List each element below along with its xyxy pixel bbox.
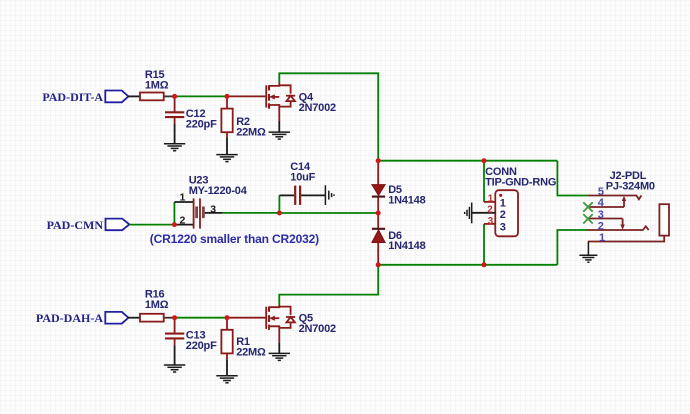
svg-text:220pF: 220pF bbox=[186, 119, 217, 131]
svg-text:3: 3 bbox=[500, 221, 506, 233]
ground (Q4) bbox=[269, 132, 290, 139]
node junction bbox=[376, 211, 381, 216]
svg-text:5: 5 bbox=[598, 186, 604, 198]
svg-text:1: 1 bbox=[599, 232, 605, 244]
ground (C13) bbox=[164, 365, 185, 372]
port PAD-DIT-A bbox=[42, 90, 128, 104]
wire junction to junction bbox=[175, 95, 227, 97]
svg-text:3: 3 bbox=[210, 203, 216, 215]
svg-text:TIP-GND-RNG: TIP-GND-RNG bbox=[485, 177, 556, 189]
node junction bbox=[376, 262, 381, 267]
connector CONN bbox=[472, 166, 556, 236]
switch arrows bbox=[622, 196, 626, 201]
port PAD-DAH-A bbox=[36, 311, 129, 325]
transistor Q4 bbox=[227, 83, 336, 132]
node junction bbox=[172, 315, 177, 320]
ground (R1) bbox=[216, 376, 237, 383]
svg-text:2: 2 bbox=[500, 209, 506, 221]
resistor R1 bbox=[221, 318, 266, 376]
wire up to CONN pin3 bbox=[483, 224, 485, 265]
resistor R2 bbox=[221, 96, 266, 154]
pin 2 line with tip contact bbox=[587, 226, 649, 230]
svg-text:1: 1 bbox=[180, 191, 186, 203]
connector J2-PDL PJ-324M0 bbox=[587, 170, 669, 244]
svg-text:1: 1 bbox=[500, 198, 506, 210]
pin4-pin5 switch bar bbox=[623, 199, 625, 207]
wire up to jack pin2 bbox=[557, 230, 587, 265]
svg-text:PJ-324M0: PJ-324M0 bbox=[606, 181, 655, 193]
svg-text:4: 4 bbox=[598, 197, 605, 209]
transistor Q5 bbox=[227, 305, 336, 353]
svg-text:220pF: 220pF bbox=[186, 340, 217, 352]
wire battery bracket bbox=[173, 202, 175, 225]
ground (J2 pin1) bbox=[579, 242, 597, 263]
no-connect X pin3 bbox=[583, 214, 592, 223]
battery U23 bbox=[174, 174, 247, 228]
node junction bbox=[376, 158, 381, 163]
no-connect X pin4 bbox=[583, 202, 592, 211]
pin 3 line bbox=[588, 218, 623, 220]
ground (Q5) bbox=[269, 353, 290, 360]
pin 1 line bbox=[588, 236, 664, 242]
wire top to CONN/jack bbox=[378, 160, 557, 162]
svg-text:2: 2 bbox=[598, 220, 604, 232]
wire Q5 drain to diode column bbox=[279, 265, 378, 305]
svg-text:(CR1220 smaller than CR2032): (CR1220 smaller than CR2032) bbox=[150, 232, 319, 246]
wire down to jack pin5 bbox=[557, 161, 588, 196]
diode D5 1N4148 bbox=[372, 161, 426, 213]
resistor R15 bbox=[140, 69, 175, 101]
svg-text:3: 3 bbox=[488, 216, 494, 227]
ground (R2) bbox=[216, 155, 237, 162]
pin 5 line with break contact bbox=[588, 196, 641, 200]
wire Q4 drain to diode column bbox=[279, 73, 378, 160]
svg-text:22MΩ: 22MΩ bbox=[236, 127, 266, 139]
pin3-pin2 switch bar bbox=[622, 219, 624, 227]
svg-text:1: 1 bbox=[488, 193, 494, 204]
svg-text:2: 2 bbox=[487, 205, 493, 216]
diode D6 1N4148 bbox=[372, 213, 426, 265]
capacitor C14 bbox=[279, 161, 324, 205]
node junction bbox=[277, 211, 282, 216]
svg-text:2N7002: 2N7002 bbox=[299, 102, 336, 114]
node junction bbox=[172, 222, 177, 227]
svg-text:1N4148: 1N4148 bbox=[388, 240, 425, 252]
capacitor C12 bbox=[165, 96, 217, 143]
svg-text:PAD-DAH-A: PAD-DAH-A bbox=[36, 311, 103, 325]
ground (CONN pin2, left-facing) bbox=[465, 203, 472, 224]
svg-text:1MΩ: 1MΩ bbox=[145, 299, 169, 311]
pin 4 line bbox=[588, 206, 624, 208]
node junction bbox=[225, 315, 230, 320]
wire port to R16 bbox=[128, 317, 140, 319]
port PAD-CMN bbox=[47, 218, 130, 232]
node junction bbox=[482, 262, 487, 267]
node junction bbox=[225, 94, 230, 99]
wire junction up to C14 bbox=[278, 195, 280, 213]
svg-text:2: 2 bbox=[180, 214, 186, 226]
wire port to battery junction bbox=[130, 224, 175, 226]
svg-text:3: 3 bbox=[598, 209, 604, 221]
svg-text:MY-1220-04: MY-1220-04 bbox=[189, 185, 248, 197]
svg-text:1N4148: 1N4148 bbox=[388, 194, 425, 206]
svg-text:22MΩ: 22MΩ bbox=[236, 347, 266, 359]
wire port to R15 bbox=[128, 95, 140, 97]
wire C14 junction to diode column bbox=[279, 212, 378, 214]
node junction bbox=[482, 158, 487, 163]
ground (C12) bbox=[164, 144, 185, 151]
svg-text:PAD-CMN: PAD-CMN bbox=[47, 218, 104, 232]
wire bottom to CONN/jack bbox=[378, 264, 557, 266]
wire down to CONN pin1 bbox=[483, 161, 485, 202]
resistor R16 bbox=[140, 289, 175, 322]
wire junction to junction bbox=[175, 317, 227, 319]
svg-text:2N7002: 2N7002 bbox=[299, 323, 336, 335]
capacitor C13 bbox=[165, 318, 217, 365]
node junction bbox=[172, 94, 177, 99]
barrel bbox=[659, 204, 669, 235]
svg-text:10uF: 10uF bbox=[290, 172, 315, 184]
ground (C14, right-facing) bbox=[325, 185, 334, 205]
wire battery to C14 junction bbox=[223, 212, 280, 214]
svg-text:PAD-DIT-A: PAD-DIT-A bbox=[42, 90, 103, 104]
svg-text:1MΩ: 1MΩ bbox=[145, 79, 169, 91]
